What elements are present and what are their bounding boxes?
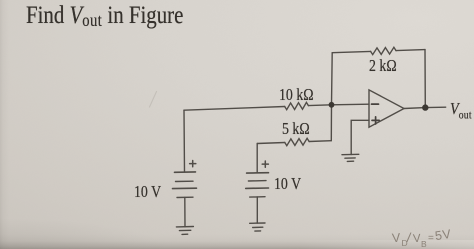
- wire: node A to op-amp inverting input: [332, 103, 370, 106]
- resistor R2 2 kOhm (feedback): [371, 47, 396, 54]
- battery V2 plates: [247, 172, 269, 174]
- wire: left vertical from 10k line down to battery V1: [183, 110, 186, 172]
- output node junction dot: [422, 104, 428, 110]
- title text: [26, 2, 183, 30]
- battery V1 plus sign: [190, 161, 196, 167]
- label 5 kOhm: [282, 119, 310, 139]
- label 10 kOhm: [279, 85, 314, 105]
- resistor R3 5 kOhm: [285, 138, 309, 145]
- op-amp U1 triangle: [369, 90, 404, 127]
- wire: battery V2 up to 5k line corner: [256, 144, 258, 173]
- ground (op-amp + input): [342, 154, 359, 161]
- label 10 V (V2): [274, 174, 301, 194]
- wire: 5k line left segment: [257, 143, 285, 144]
- pencil smudge mark: [150, 92, 157, 108]
- handwriting VD/VB = 5V: [392, 231, 401, 246]
- wire: feedback top right segment: [396, 50, 425, 51]
- node A junction dot: [329, 102, 335, 108]
- wire: op-amp noninverting input to ground stub: [351, 120, 369, 154]
- wire: node A up to feedback: [331, 53, 334, 105]
- wire: battery V2 to ground: [256, 197, 258, 223]
- op-amp minus sign: [372, 103, 379, 105]
- wire: battery V1 to ground: [184, 197, 186, 226]
- wire: horizontal to 10k resistor: [184, 107, 285, 111]
- battery V1 plates: [175, 171, 196, 173]
- wire: op-amp output to Vout: [404, 107, 446, 108]
- wire: feedback right vertical down to output node: [424, 50, 426, 108]
- label 10 V (V1): [134, 182, 161, 202]
- op-amp plus sign: [372, 117, 379, 124]
- battery V2 plus sign: [262, 161, 268, 167]
- label Vout: [450, 99, 472, 121]
- ground (V2): [250, 223, 265, 231]
- wire: feedback top left segment: [332, 51, 370, 52]
- wire: 5k vertical up to node A: [330, 105, 332, 141]
- label 2 kOhm: [369, 56, 397, 76]
- wire: 5k line right segment: [309, 140, 331, 143]
- wire: 10k resistor to node A: [308, 104, 331, 107]
- ground (V1): [176, 227, 193, 235]
- resistor R1 10 kOhm: [285, 102, 309, 109]
